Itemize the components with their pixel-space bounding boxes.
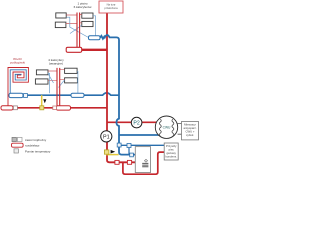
legend: temperature sensor icon	[14, 149, 18, 153]
svg-text:przełożona: przełożona	[104, 6, 118, 10]
radiator F1-4 (1 pietro bottom-right)	[82, 21, 93, 26]
svg-text:rozdzielacz: rozdzielacz	[25, 144, 40, 148]
sensor: red square on stove line (left)	[115, 160, 119, 164]
wire: blue branch to future boiler box (y=145.3)	[119, 144, 164, 146]
sensor: square left of awaryjne box	[53, 106, 57, 110]
sensor: square on red main	[13, 106, 17, 110]
manifold: mid blue collector box (awaryjne return)	[71, 93, 84, 97]
valve: yellow square on red main	[40, 106, 44, 110]
sensor: square on blue main	[24, 94, 28, 98]
wire: red stove loop (down, across bottom, up to future boiler)	[123, 152, 164, 174]
stove: grate bars	[142, 163, 148, 166]
radiator F1-2 (1 pietro bottom-left)	[55, 22, 66, 28]
heating coil: red spiral (80+63 podlogowka)	[8, 68, 28, 106]
wire: thin blue radiator connections (awaryjne)	[48, 72, 78, 94]
wire: connectors CWU to mixer box	[178, 124, 182, 135]
manifold: red rozdzielacz box (awaryjne)	[56, 106, 70, 110]
svg-text:P1: P1	[103, 134, 110, 140]
mixer: antyoparzeniowy label box	[182, 122, 199, 140]
svg-text:Na turę: Na turę	[107, 2, 116, 6]
label: 80+63 podlogowki	[10, 57, 25, 65]
radiator F1-3 (1 pietro top-right)	[82, 13, 93, 18]
sensor: blue square at stove inlet	[130, 153, 134, 157]
svg-text:kondens.: kondens.	[166, 154, 178, 158]
pump P2	[131, 117, 142, 128]
manifold: left blue collector box	[9, 93, 23, 97]
label: CWU text	[163, 126, 171, 130]
radiator E3 (awaryjne top-right)	[65, 68, 78, 73]
sensor: red square on stove line (right)	[127, 160, 131, 164]
wire: thin red radiator stubs (1 pietro)	[66, 15, 82, 24]
wire: red risers (awaryjne)	[57, 68, 60, 106]
legend: texts	[25, 138, 51, 154]
wire: red supply thick from upper manifold to trunk	[82, 49, 108, 51]
wire: blue trunk with top zigzag, hop over red trunk, bulge at red crossing, corner into stove	[100, 35, 136, 155]
wire: yellow bypass red->blue trunk	[106, 154, 119, 156]
arrow: black flow arrow (right) over yellow bypass	[111, 150, 116, 154]
heating coil: blue spiral interleaved	[10, 70, 26, 94]
wire: blue sensor drop to stove line	[128, 147, 130, 154]
arrow: black flow arrow (down) beside yellow drop	[43, 99, 46, 103]
sensor: blue square on future-boiler line	[127, 144, 131, 148]
sensor: blue square on trunk (y=145)	[117, 143, 121, 147]
svg-text:(awaryjne): (awaryjne)	[49, 62, 63, 66]
svg-text:cyrkul.: cyrkul.	[186, 133, 194, 137]
svg-text:podłogówki: podłogówki	[10, 61, 25, 65]
wire: thin red radiator stubs (awaryjne)	[48, 70, 65, 81]
svg-text:zawór trójdrożny: zawór trójdrożny	[25, 138, 47, 142]
wire: red risers (1 pietro)	[77, 13, 80, 48]
heat exchanger: left wavy coil	[159, 119, 161, 136]
valve: yellow square on red trunk	[104, 150, 109, 154]
radiator F1-1 (1 pietro top-left)	[56, 13, 66, 18]
legend: three-way valve icon	[12, 137, 16, 141]
wire: blue return main (left, y=95) with hop over red trunk	[10, 93, 119, 95]
radiator E4 (awaryjne bottom-right)	[65, 78, 78, 83]
svg-text:6 kaloryferów: 6 kaloryferów	[74, 5, 93, 9]
stove: solid fuel stove box	[135, 147, 150, 173]
label: 4 kaloryfery (awaryjne)	[48, 58, 64, 66]
manifold: upper blue collector box	[89, 36, 101, 40]
label: top-right red box	[99, 1, 123, 13]
radiator E2 (awaryjne bottom-left)	[35, 79, 48, 84]
heat exchanger: right wavy coil	[172, 119, 174, 136]
wire: red P2 line trunk->P2->CWU (y=122.3)	[107, 121, 157, 123]
wire: blue branch to CWU circle (y=135)	[119, 134, 159, 136]
radiator E1 (awaryjne top-left)	[36, 70, 48, 75]
svg-text:Pomiar temperatury: Pomiar temperatury	[25, 149, 51, 153]
svg-text:CWU: CWU	[163, 126, 171, 130]
manifold: upper red rozdzielacz box	[66, 47, 82, 52]
wire: red supply main (left, y=107.8)	[1, 107, 107, 109]
wire: thin blue radiator connections (1 pietro)	[66, 16, 95, 38]
label: 1 pietro 6 kaloryferow	[74, 1, 93, 9]
svg-text:P2: P2	[133, 121, 139, 127]
heat exchanger: CWU circle	[155, 116, 177, 138]
wire: red trunk vertical with corner to stove	[107, 13, 135, 163]
legend: rozdzielacz icon	[12, 143, 24, 147]
manifold: left red rozdzielacz box	[1, 106, 13, 110]
stove: diamond vent icon	[145, 159, 148, 162]
future boiler: label box	[164, 143, 178, 160]
pump P1	[101, 131, 112, 142]
wire: yellow drop (4 radiators section)	[41, 95, 43, 108]
